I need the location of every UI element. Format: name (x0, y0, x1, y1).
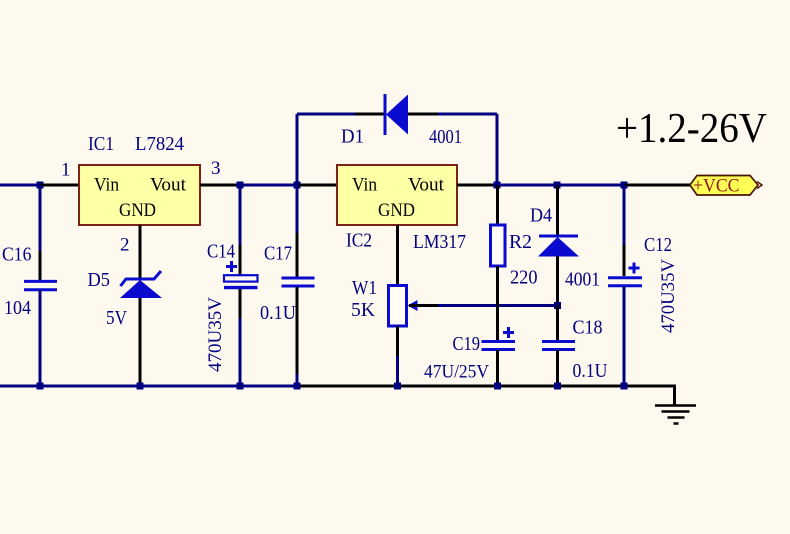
node junction at (557,305) (554, 302, 561, 309)
wire C17 bottom (296, 374, 299, 386)
wire D4 to C18 (556, 305, 559, 341)
capacitor C12 top plate (608, 276, 642, 279)
svg-text:C18: C18 (573, 317, 603, 339)
pin W1 wiper black (409, 304, 438, 307)
pin D1 cathode-side black (408, 113, 438, 116)
ground bus wire left (0, 385, 297, 388)
op-amp U1 regulator IC1 box (79, 165, 200, 225)
pin D4 top (556, 185, 559, 236)
pin C12 top (623, 245, 626, 276)
ground bus wire right (297, 385, 676, 388)
svg-text:Vin: Vin (94, 175, 119, 196)
wire pin stub IC2 Vin (297, 184, 337, 187)
zener D5 triangle (120, 280, 162, 298)
svg-text:Vout: Vout (150, 175, 187, 196)
node junction at (624,386) (621, 383, 628, 390)
potentiometer W1 body (389, 286, 407, 327)
svg-text:W1: W1 (352, 277, 377, 299)
svg-text:LM317: LM317 (413, 231, 466, 253)
node junction at (240,185) (237, 182, 244, 189)
svg-text:4001: 4001 (565, 269, 600, 291)
wire C14 bottom (239, 318, 242, 386)
node junction at (397,386) (394, 383, 401, 390)
svg-text:C12: C12 (644, 234, 672, 256)
svg-text:104: 104 (4, 297, 31, 319)
svg-text:3: 3 (211, 158, 221, 179)
svg-text:L7824: L7824 (135, 133, 184, 155)
svg-text:0.1U: 0.1U (260, 302, 296, 324)
wire pin stub IC2 Vout (457, 184, 497, 187)
wire (0, 184, 40, 187)
svg-text:5K: 5K (351, 299, 376, 321)
svg-text:4001: 4001 (429, 126, 462, 148)
node junction at (497,185) (494, 182, 501, 189)
zener D5 bar (121, 271, 162, 286)
wire ground drop (673, 386, 676, 406)
svg-text:C14: C14 (207, 241, 235, 263)
svg-text:220: 220 (510, 267, 538, 289)
capacitor C16 plates (24, 280, 57, 283)
svg-text:R2: R2 (509, 231, 532, 253)
diode D1 triangle (386, 95, 408, 135)
pin D5 bottom (139, 298, 142, 330)
power port +VCC flag (690, 176, 758, 196)
capacitor C18 plates (542, 340, 575, 343)
pin R2 bottom / wire to C19 (496, 266, 499, 340)
pin C16 top (39, 251, 42, 281)
svg-text:470U35V: 470U35V (205, 297, 226, 372)
node junction at (624,185) (621, 182, 628, 189)
svg-text:Vout: Vout (408, 175, 445, 196)
wire D1 loop right vertical (496, 114, 499, 185)
wire C14 top (239, 185, 242, 245)
node junction at (240,386) (237, 383, 244, 390)
svg-text:D5: D5 (88, 269, 111, 291)
wire D1 loop left vertical (296, 114, 299, 185)
svg-text:GND: GND (378, 200, 415, 221)
svg-text:+1.2-26V: +1.2-26V (616, 106, 767, 152)
pin C17 bottom (296, 287, 299, 374)
wire C16 bottom (39, 290, 42, 386)
capacitor C12 bottom plate (608, 284, 642, 287)
svg-text:C19: C19 (453, 333, 481, 355)
capacitor C19 plus sign (503, 331, 514, 334)
svg-text:+VCC: +VCC (693, 176, 740, 197)
pin C18 bottom (556, 350, 559, 386)
svg-text:1: 1 (61, 160, 71, 181)
wire D1 loop top left (297, 113, 355, 116)
svg-text:C16: C16 (2, 244, 32, 266)
wire C16 top (39, 185, 42, 251)
node junction at (297,386) (294, 383, 301, 390)
wire W1 wiper (438, 304, 557, 307)
wire C12 top (623, 185, 626, 245)
pin IC2 GND / W1 top (396, 225, 399, 286)
node junction at (140,386) (137, 383, 144, 390)
wire W1 bottom (396, 356, 399, 386)
pin IC1 GND / zener D5 top (139, 225, 142, 279)
svg-text:470U35V: 470U35V (658, 259, 679, 333)
capacitor C14 top plate rect (224, 275, 258, 281)
svg-text:2: 2 (120, 235, 130, 256)
pin R2 top (496, 185, 499, 225)
node junction at (297,185) (294, 182, 301, 189)
svg-text:D1: D1 (341, 126, 364, 148)
svg-text:5V: 5V (106, 307, 127, 329)
svg-text:IC2: IC2 (346, 230, 372, 252)
node junction at (557,386) (554, 383, 561, 390)
svg-text:0.1U: 0.1U (573, 360, 608, 382)
pin C19 bottom (496, 350, 499, 386)
svg-text:IC1: IC1 (88, 133, 114, 155)
node junction at (497,386) (494, 383, 501, 390)
wire pin 1 stub IC1 (40, 184, 80, 187)
node A junction at (40,185) (37, 182, 44, 189)
node junction at (557,185) (554, 182, 561, 189)
capacitor C17 plates (282, 277, 315, 280)
capacitor C14 plus sign (226, 265, 237, 268)
pin C14 top (239, 245, 242, 276)
op-amp U2 regulator IC2 box (337, 165, 457, 225)
pin D4 bottom (556, 256, 559, 305)
capacitor C14 bottom plate (224, 286, 258, 289)
potentiometer W1 wiper arrow (408, 300, 418, 311)
capacitor C12 plus sign (629, 267, 640, 270)
wire D1 loop top right (438, 113, 497, 116)
diode D4 triangle (538, 237, 579, 257)
diode D1 cathode bar (384, 94, 387, 135)
wire (557, 184, 624, 187)
svg-text:D4: D4 (530, 205, 552, 227)
pin C14 bottom (239, 289, 242, 318)
wire (497, 184, 557, 187)
svg-text:GND: GND (119, 200, 156, 221)
pin W1 bottom (396, 326, 399, 356)
capacitor C19 bottom plate (482, 348, 516, 351)
svg-text:Vin: Vin (352, 175, 377, 196)
pin C17 top (296, 233, 299, 278)
wire D5 bottom (139, 330, 142, 386)
resistor R2 body (491, 225, 506, 266)
wire C12 bottom (623, 286, 626, 386)
wire to power port (624, 184, 690, 187)
capacitor C19 top plate (482, 340, 516, 343)
power port tail chevron (757, 182, 762, 189)
wire (240, 184, 297, 187)
diode D4 cathode bar (539, 235, 578, 238)
wire pin 3 stub IC1 (200, 184, 240, 187)
svg-text:C17: C17 (264, 243, 292, 265)
ground symbol (655, 406, 696, 424)
pin D1 anode-side black (355, 113, 385, 116)
svg-text:47U/25V: 47U/25V (424, 362, 489, 383)
wire C17 top (296, 185, 299, 233)
node junction at (40,386) (37, 383, 44, 390)
